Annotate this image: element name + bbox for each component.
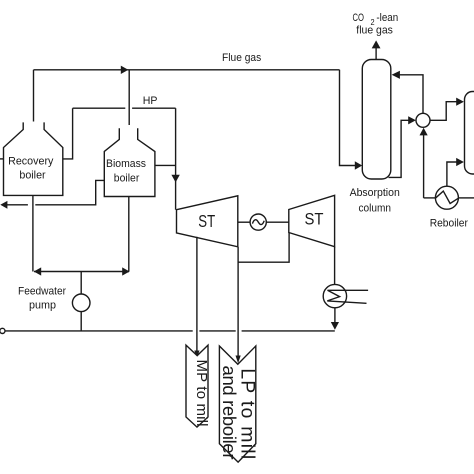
banner arrow: LP to mill and reboiler <box>219 346 255 462</box>
biomass boiler B2 <box>104 128 155 196</box>
wire: recovery boiler downcomer <box>32 195 34 271</box>
lean/rich exchanger X1 <box>416 113 430 127</box>
absorption column C1 <box>362 60 391 180</box>
wire: turbine2 to condenser <box>334 247 336 285</box>
svg-text:column: column <box>359 202 392 214</box>
arrow MP into banner <box>194 351 199 359</box>
arrow condensate down <box>331 322 339 330</box>
wire: recovery boiler HP outlet stub <box>63 108 73 159</box>
wire: HP drop to turbine 1 <box>175 108 177 210</box>
feedwater pump P1 <box>72 294 90 312</box>
wire: shaft turbine1 to generator <box>238 221 250 223</box>
arrow into exchanger from bottom <box>420 128 428 136</box>
wire: crossover to turbine2 <box>238 233 289 263</box>
svg-text:HP: HP <box>143 95 158 107</box>
wire: condensate drop from condenser <box>334 308 336 323</box>
wire: lean return riser from reboiler line <box>423 135 425 198</box>
wire: lean solvent to absorber top <box>399 75 423 114</box>
generator sine symbol <box>252 220 264 225</box>
svg-text:ST: ST <box>198 211 215 231</box>
wire: generator to turbine2 <box>266 221 289 223</box>
reboiler internal zigzag <box>435 191 458 203</box>
arrow into stripper lower <box>456 158 464 166</box>
wire: HP header right segment <box>132 107 176 109</box>
wire: recovery boiler left stub <box>0 158 4 160</box>
wire: flue gas drop to absorber <box>340 70 356 166</box>
svg-text:pump: pump <box>29 299 56 311</box>
wire: biomass boiler exhaust riser <box>128 70 130 125</box>
wire: rich solvent from absorber bottom <box>389 120 409 177</box>
arrow LP into banner <box>236 356 241 364</box>
svg-text:ST: ST <box>305 210 324 228</box>
condenser E1 <box>323 284 346 307</box>
wire: HP header left segment <box>73 107 126 109</box>
wire: biomass boiler HP outlet stub <box>155 164 176 166</box>
svg-text:-lean: -lean <box>376 12 398 24</box>
reboiler E2 <box>435 186 458 209</box>
svg-text:and reboiler: and reboiler <box>219 366 240 460</box>
svg-text:Flue gas: Flue gas <box>222 52 262 64</box>
arrow on HP drop <box>171 175 179 183</box>
arrow into exchanger from left <box>408 116 416 124</box>
wire: LP line down from turbine1 exit <box>237 247 239 357</box>
svg-text:Feedwater: Feedwater <box>18 286 66 298</box>
wire: condensate header segment 3 <box>242 330 335 332</box>
wire: reboiler vapor to stripper <box>447 162 457 186</box>
wire: exchanger to stripper top <box>430 102 457 121</box>
svg-text:CO: CO <box>353 12 365 24</box>
svg-text:boiler: boiler <box>19 169 46 181</box>
banner arrow: MP to mill <box>186 345 208 427</box>
recovery boiler B1 <box>4 122 63 195</box>
svg-text:Biomass: Biomass <box>106 158 146 170</box>
wire: reboiler right line <box>458 197 474 199</box>
wire: biomass boiler downcomer <box>128 197 130 272</box>
condenser internal and cooling water lines <box>327 290 368 303</box>
svg-text:Recovery: Recovery <box>8 156 54 168</box>
wire: condensate header segment 2 <box>199 330 235 332</box>
arrow to mill (left edge) <box>0 201 7 209</box>
svg-text:Reboiler: Reboiler <box>430 217 469 229</box>
arrow on flue gas header <box>121 66 129 74</box>
node: condensate header open circle <box>0 328 5 333</box>
svg-text:MP to mill: MP to mill <box>193 360 210 427</box>
arrow feedwater left <box>34 267 41 275</box>
arrow into absorber right side <box>392 71 400 79</box>
arrow feedwater right <box>122 267 129 275</box>
wire: pump riser upper <box>80 272 82 295</box>
steam turbine ST2 <box>289 195 335 246</box>
svg-text:boiler: boiler <box>114 173 140 185</box>
arrow into stripper upper <box>456 98 464 106</box>
wire: MP extraction line <box>196 237 198 352</box>
wire: feedwater header <box>34 271 129 273</box>
wire: CO2-lean stack <box>375 47 377 60</box>
wire: flue gas header <box>34 69 340 71</box>
arrow CO2-lean up <box>372 40 381 48</box>
generator G1 <box>250 214 266 230</box>
wire: recovery boiler exhaust riser <box>33 70 35 122</box>
wire: condensate header segment 1 <box>5 330 193 332</box>
wire: biomass boiler feed line down-left <box>35 180 104 204</box>
wire: reboiler to riser stub <box>424 197 436 199</box>
steam turbine ST1 <box>177 196 238 247</box>
stripper column C2 (cut off at edge) <box>465 92 474 175</box>
svg-text:flue gas: flue gas <box>356 25 393 37</box>
wire: to-mill line left part <box>7 204 28 206</box>
wire: pump riser lower <box>80 312 82 331</box>
svg-text:Absorption: Absorption <box>350 187 400 199</box>
arrow into absorber bottom <box>355 161 362 169</box>
